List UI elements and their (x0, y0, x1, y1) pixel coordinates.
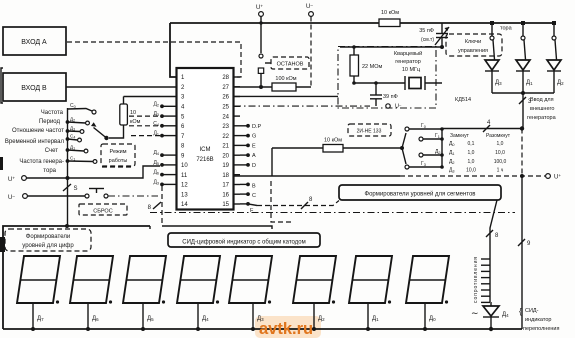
wire digit D3 cathode (251, 303, 264, 331)
node U+ on rail (259, 21, 262, 24)
svg-text:внешнего: внешнего (530, 106, 554, 112)
switch key Д1 (521, 21, 526, 60)
display area frame (3, 226, 150, 329)
svg-text:12: 12 (181, 183, 188, 189)
node segment D.P (240, 124, 262, 130)
table gate times (449, 133, 511, 174)
display digit D6 (70, 256, 113, 304)
wire digit D5 cathode (141, 303, 154, 331)
node segment D (240, 163, 256, 169)
node pin row digit Д5 (153, 160, 176, 167)
wire segment bus to formers (248, 204, 257, 206)
svg-text:10 кОм: 10 кОм (324, 138, 342, 144)
bus marker 8 segments (301, 197, 313, 209)
svg-text:7216В: 7216В (196, 157, 213, 163)
svg-text:∼: ∼ (471, 308, 479, 318)
svg-text:10: 10 (181, 163, 188, 169)
label box 2I-NE (348, 124, 391, 136)
display digit D0 (406, 256, 449, 304)
svg-text:Д2: Д2 (557, 80, 564, 86)
bus marker 9 (518, 239, 531, 247)
diode Д2 (547, 60, 564, 93)
wire pin 1 riser (170, 23, 177, 77)
resistor 10 kOhm top (379, 10, 400, 27)
wire digit D2 cathode (312, 303, 325, 331)
svg-text:кОм: кОм (130, 119, 141, 125)
terminal U- oscillator (386, 102, 402, 110)
display digit D2 (293, 256, 336, 304)
svg-text:24: 24 (222, 114, 229, 120)
svg-text:работы: работы (109, 158, 128, 164)
node segment F (240, 202, 254, 214)
wire enclosure dash-dot bottom (150, 212, 515, 214)
wire dashed vertical right of IC (271, 181, 293, 222)
node segment E (240, 143, 256, 149)
node U+ right junction (520, 174, 524, 178)
wire digit D7 cathode (31, 303, 44, 331)
capacitor 39 pF (370, 83, 398, 106)
label LED overflow indicator (519, 307, 559, 332)
display digit D3 (229, 256, 272, 304)
svg-text:1,0: 1,0 (468, 159, 475, 165)
svg-text:СБРОС: СБРОС (93, 209, 112, 215)
svg-text:генератора: генератора (527, 115, 557, 121)
svg-text:Д2: Д2 (318, 316, 325, 322)
svg-text:Кварцевый: Кварцевый (394, 50, 422, 57)
svg-text:C: C (252, 193, 256, 199)
wire pin 27 to junction (234, 86, 261, 88)
wire resistor top to pin 3 (124, 96, 177, 98)
svg-text:Д4: Д4 (502, 312, 509, 318)
svg-text:{: { (519, 307, 522, 316)
terminal U- left (8, 194, 87, 202)
node segment C (240, 192, 256, 199)
svg-text:27: 27 (222, 85, 229, 91)
wire digit D0 cathode (423, 303, 436, 331)
label box rezhim raboty (101, 144, 135, 166)
switch marker S (63, 184, 78, 192)
wire frame top ticks (150, 226, 272, 229)
svg-text:20: 20 (222, 153, 229, 159)
svg-text:тора: тора (43, 168, 56, 174)
display digit D1 (349, 256, 392, 304)
svg-text:Д4: Д4 (202, 316, 209, 322)
capacitor trimmer 35 pF (419, 23, 449, 49)
svg-text:28: 28 (222, 75, 229, 81)
svg-text:Д7: Д7 (37, 316, 44, 322)
wire dashes to rotary (129, 116, 162, 136)
svg-text:2И-НЕ 133: 2И-НЕ 133 (357, 129, 382, 135)
svg-text:16: 16 (222, 192, 229, 198)
node pin row С4 (153, 121, 176, 128)
bus marker 8 right (486, 230, 499, 239)
wire diode common rail (492, 91, 554, 95)
display digit D5 (123, 256, 166, 304)
svg-text:26: 26 (222, 95, 229, 101)
svg-text:15: 15 (222, 202, 229, 208)
svg-text:Ввод для: Ввод для (530, 97, 554, 103)
wire digit bus dashed down (161, 186, 163, 226)
resistor comb network (481, 258, 490, 302)
svg-text:17: 17 (222, 183, 229, 189)
terminal U- top (306, 3, 313, 17)
svg-text:E: E (252, 143, 256, 149)
resistor 10 kOhm horizontal (272, 138, 402, 153)
svg-text:D.P: D.P (252, 124, 262, 130)
bus marker 4 (483, 120, 491, 132)
display digit D4 (177, 256, 220, 304)
selector contact Г0 (405, 123, 444, 131)
svg-text:25: 25 (222, 105, 229, 111)
node pin row digit Д4 (153, 150, 176, 157)
input box VHOD A (3, 27, 66, 55)
label mode list (5, 110, 65, 174)
svg-text:ICM: ICM (200, 147, 211, 153)
svg-text:39 пФ: 39 пФ (383, 94, 398, 100)
node pin row Д3 (153, 111, 176, 118)
wire oscillator top rail (340, 46, 442, 48)
svg-text:18: 18 (222, 173, 229, 179)
svg-text:G: G (252, 134, 256, 140)
svg-text:Ключи: Ключи (465, 39, 481, 45)
selector contact Д2 (419, 149, 444, 157)
svg-text:19: 19 (222, 163, 229, 169)
resistor 22 MOhm (350, 45, 383, 83)
LED D4 overflow (471, 302, 509, 331)
wire SBROS dashed (108, 195, 158, 197)
svg-text:10,0: 10,0 (466, 168, 476, 174)
node U+ rotary junction (66, 176, 70, 180)
oscillator enclosure dash-dot (338, 47, 436, 109)
wire digit D6 cathode (86, 303, 99, 331)
svg-text:Замкнут: Замкнут (450, 133, 470, 139)
diode Д1 (516, 60, 533, 93)
wire rotary common rail (67, 108, 69, 226)
svg-text:A: A (252, 153, 256, 159)
svg-text:10 кОм: 10 кОм (381, 10, 399, 16)
svg-text:21: 21 (222, 144, 229, 150)
IC pin stubs right side 28-15 (234, 77, 241, 204)
svg-text:Частота генера-: Частота генера- (19, 159, 64, 165)
svg-text:Временной интервал: Временной интервал (5, 138, 65, 145)
label box OSTANOV (265, 57, 309, 69)
svg-text:1,0: 1,0 (468, 150, 475, 156)
diode Д3 (485, 60, 502, 93)
wire right bus down (521, 129, 523, 330)
wire common to node with marker 3 (519, 93, 532, 129)
svg-text:Д0: Д0 (429, 316, 436, 322)
svg-text:22 МОм: 22 МОм (362, 64, 383, 70)
svg-text:СИД-: СИД- (525, 308, 539, 314)
selector pivot node (400, 146, 404, 150)
svg-text:тора: тора (500, 26, 513, 32)
svg-text:Д5: Д5 (147, 316, 154, 322)
wire input A dashed to pin 28 (67, 42, 241, 77)
svg-text:0,1: 0,1 (468, 141, 475, 147)
svg-text:Формирователи: Формирователи (26, 234, 70, 240)
svg-text:Д6: Д6 (92, 316, 99, 322)
rotary contact S0 (68, 103, 97, 114)
svg-text:ОСТАНОВ: ОСТАНОВ (277, 62, 304, 68)
wire U- dashed drop (310, 17, 312, 88)
wire enclosure dash remnant (102, 166, 132, 168)
node selector/ext junction (520, 126, 524, 130)
IC name label (196, 147, 213, 163)
wire pin 18 rail to U+ right (234, 175, 545, 177)
svg-text:Разомкнут: Разомкнут (486, 133, 511, 139)
resistor 10 kOhm vertical (109, 97, 141, 139)
svg-text:10,0: 10,0 (495, 150, 505, 156)
watermark background (255, 316, 321, 338)
label box LED indicator common cathode (168, 233, 320, 247)
svg-text:СИД-цифровой индикатор с общим: СИД-цифровой индикатор с общим катодом (182, 239, 305, 246)
wire pin 26 to oscillator (234, 95, 338, 97)
node pin27/U+ junction (259, 85, 263, 89)
label external generator input (527, 97, 557, 121)
wire oscillator bottom rail (352, 81, 405, 85)
wire pin 25 dashed (234, 105, 370, 107)
rotary contact С1 (66, 156, 97, 164)
svg-text:ВХОД А: ВХОД А (21, 39, 47, 46)
scan artifact left edge mark (0, 157, 3, 170)
label box control keys (446, 34, 502, 56)
svg-text:B: B (252, 183, 256, 189)
node segment A (240, 153, 256, 159)
svg-text:управления: управления (458, 48, 488, 54)
IC pin numbers right 28-15 (222, 75, 229, 208)
label box digit level formers (5, 229, 91, 251)
svg-text:11: 11 (181, 173, 188, 179)
svg-text:индикатор: индикатор (525, 317, 551, 323)
svg-text:Д1: Д1 (372, 316, 379, 322)
svg-text:13: 13 (181, 192, 188, 198)
wire selector rail (441, 129, 443, 167)
svg-text:(см.т): (см.т) (421, 37, 434, 43)
wire digit D1 cathode (366, 303, 379, 331)
svg-text:Период: Период (39, 119, 61, 125)
svg-text:уровней для цифр: уровней для цифр (22, 242, 74, 249)
svg-text:100,0: 100,0 (494, 159, 507, 165)
IC pin numbers left 1-14 (181, 75, 188, 208)
svg-text:10: 10 (130, 110, 136, 116)
node pin row digit Д6 (153, 170, 176, 177)
svg-text:Счет: Счет (45, 148, 59, 154)
wire bottom cathode bus (3, 328, 522, 330)
display digit D7 (17, 256, 60, 304)
node segment G (240, 134, 256, 140)
node pin row digit Д3 (153, 179, 176, 186)
node rotary rail to frame (65, 224, 69, 228)
svg-text:avtk.ru: avtk.ru (259, 320, 313, 338)
rotary wiper arm (91, 122, 109, 140)
svg-text:Режим: Режим (110, 149, 127, 155)
svg-text:14: 14 (181, 202, 188, 208)
svg-text:23: 23 (222, 124, 229, 130)
svg-text:D: D (252, 163, 256, 169)
bus marker 8 digits (148, 202, 161, 211)
svg-text:генератор: генератор (395, 59, 421, 65)
svg-text:сопротивления: сопротивления (473, 257, 479, 303)
label crystal oscillator (394, 50, 422, 73)
svg-text:Д1: Д1 (526, 80, 533, 86)
svg-text:Формирователи уровней для сегм: Формирователи уровней для сегментов (365, 191, 476, 198)
svg-text:Отношение частот: Отношение частот (12, 128, 64, 134)
label box formers of segment levels (339, 185, 501, 200)
scan artifact bracket at input B (1, 68, 3, 103)
node pin row Д2 (153, 101, 176, 108)
resistor 100 kOhm (261, 76, 311, 91)
svg-text:1 ч: 1 ч (497, 168, 504, 174)
svg-text:35 пФ: 35 пФ (419, 28, 434, 34)
switch key Д3 (490, 21, 495, 60)
selector contact Г1 (419, 133, 444, 141)
wire riser to 10k (271, 148, 273, 176)
switch OSTANOV contact (258, 54, 263, 85)
selector arms (402, 133, 406, 164)
op IC U1 ICM7216 body (177, 68, 234, 210)
node pin row Д1 (153, 131, 176, 138)
svg-text:100 кОм: 100 кОм (275, 76, 296, 82)
svg-text:22: 22 (222, 134, 229, 140)
svg-text:1,0: 1,0 (497, 141, 504, 147)
node segment B (240, 183, 256, 190)
scan artifact left edge blob (0, 237, 5, 252)
wire U+ drop (260, 17, 262, 54)
label box SBROS (79, 204, 127, 215)
svg-text:переполнения: переполнения (523, 326, 559, 332)
input box VHOD B (3, 73, 66, 101)
wire input B to pin 2 (66, 86, 176, 88)
wire selector to node (442, 128, 522, 130)
svg-text:КД514: КД514 (455, 97, 471, 103)
switch key Д2 (552, 21, 557, 60)
wire top rail (170, 22, 554, 24)
terminal U+ left (8, 166, 160, 183)
svg-text:Частота: Частота (41, 110, 64, 116)
crystal 10 MHz (405, 76, 442, 90)
svg-text:ВХОД В: ВХОД В (21, 85, 47, 92)
selector contact Г3 (405, 161, 444, 169)
svg-text:10 МГц: 10 МГц (402, 67, 421, 73)
svg-text:S: S (74, 186, 78, 192)
svg-text:Д3: Д3 (495, 80, 502, 86)
wire formers to resistor comb (490, 200, 497, 258)
terminal U+ right (546, 173, 562, 181)
pushbutton SBROS (85, 189, 108, 199)
wire digit D4 cathode (196, 303, 209, 331)
terminal U+ top (256, 4, 263, 17)
